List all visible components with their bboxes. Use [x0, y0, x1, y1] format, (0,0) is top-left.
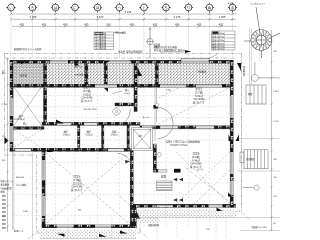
- entry wall x135: [134, 63, 137, 112]
- toilet wall: [115, 103, 134, 106]
- svg-text:物干場: 物干場: [20, 74, 28, 78]
- small wall x128: [127, 125, 129, 149]
- top-right room dashed diagonals: [159, 88, 230, 124]
- meter symbol: [146, 27, 154, 58]
- bottom margin: [47, 218, 226, 238]
- storage east wall x44: [44, 63, 47, 123]
- room labels: [81, 86, 93, 104]
- stair box upper right: [246, 85, 266, 104]
- svg-text:CH=2396: CH=2396: [81, 96, 93, 100]
- WIC dashed diagonals: [14, 130, 42, 148]
- svg-text:0.82㎡: 0.82㎡: [85, 133, 93, 137]
- small notes: [14, 45, 186, 54]
- svg-text:455: 455: [63, 22, 68, 26]
- entry hall door arc: [154, 87, 156, 141]
- tree symbol: [244, 7, 280, 58]
- hatched band top-left (diagonal): [14, 64, 45, 85]
- svg-text:6.62㎡: 6.62㎡: [195, 94, 203, 98]
- svg-text:り: り: [187, 5, 191, 10]
- svg-text:1 820: 1 820: [166, 90, 172, 92]
- toilet door arc: [117, 109, 130, 126]
- svg-text:1 365: 1 365: [2, 104, 8, 106]
- svg-text:6.62㎡: 6.62㎡: [17, 117, 25, 121]
- left lower exterior wall: [42, 148, 45, 228]
- svg-text:12.15㎡: 12.15㎡: [72, 181, 81, 185]
- right dim line: [270, 30, 272, 231]
- corridor north wall: [42, 122, 140, 125]
- svg-text:CH=2396: CH=2396: [71, 185, 83, 189]
- svg-text:洋室②: 洋室②: [83, 86, 91, 90]
- wall x156 upper: [155, 63, 158, 85]
- genkan west wall: [153, 144, 156, 172]
- svg-text:1 365: 1 365: [273, 91, 279, 93]
- svg-text:と: と: [142, 5, 146, 10]
- left lines lower: [31, 152, 33, 239]
- svg-text:(7.3帖): (7.3帖): [73, 178, 81, 182]
- spec table right: [212, 31, 236, 50]
- svg-text:1 365: 1 365: [219, 15, 226, 19]
- svg-text:洋室①: 洋室①: [195, 87, 203, 91]
- slide arrows near entrance: [173, 178, 183, 181]
- svg-text:(6.0帖): (6.0帖): [192, 155, 200, 159]
- spec table center: [94, 32, 114, 50]
- svg-text:910: 910: [106, 22, 111, 26]
- storage room X (solid): [14, 87, 42, 126]
- svg-text:1.66㎡: 1.66㎡: [110, 133, 118, 137]
- small wall x78: [78, 125, 80, 149]
- svg-text:UB: UB: [138, 136, 142, 138]
- svg-text:455: 455: [42, 22, 47, 26]
- living room east wall: [130, 151, 133, 226]
- svg-text:床:ﾌﾛｰﾘﾝｸﾞ: 床:ﾌﾛｰﾘﾝｸﾞ: [71, 188, 83, 192]
- brace arrows: [21, 61, 27, 65]
- svg-text:455: 455: [197, 22, 202, 26]
- svg-text:2 130: 2 130: [273, 121, 279, 123]
- svg-text:455: 455: [219, 22, 224, 26]
- svg-text:CH=2396: CH=2396: [190, 162, 202, 166]
- band bottom wall: [10, 84, 231, 87]
- svg-text:455: 455: [153, 22, 158, 26]
- svg-text:1 365: 1 365: [30, 15, 37, 19]
- sliding door hatch segments: [15, 149, 31, 152]
- svg-text:455: 455: [175, 22, 180, 26]
- svg-text:い: い: [9, 6, 13, 10]
- small wall x103: [102, 125, 104, 149]
- svg-text:洋室A: 洋室A: [74, 175, 81, 179]
- band wall x105: [104, 63, 107, 85]
- genkan steps: [157, 181, 173, 191]
- svg-text:玄関: 玄関: [161, 175, 167, 179]
- svg-text:駐輪場2台分スペース確保: 駐輪場2台分スペース確保: [14, 47, 42, 51]
- left margin dim line: [6, 58, 8, 232]
- svg-text:3 640: 3 640: [97, 15, 104, 19]
- svg-text:ほ: ほ: [96, 5, 100, 10]
- svg-text:ろ: ろ: [31, 5, 35, 10]
- svg-text:へ: へ: [118, 6, 122, 10]
- svg-text:455: 455: [84, 22, 89, 26]
- svg-text:洋室B: 洋室B: [193, 152, 200, 156]
- svg-text:に: に: [73, 6, 77, 10]
- band divider wall x85: [85, 63, 88, 85]
- living room door arc: [118, 154, 133, 169]
- bottom-right room dashed diagonals: [176, 152, 230, 204]
- toilet fixture: [112, 107, 121, 116]
- step-up wall: [133, 204, 136, 228]
- corridor south wall / step: [10, 148, 134, 151]
- dimension line row 1: [12, 14, 236, 26]
- svg-text:床:ﾌﾛｰﾘﾝｸﾞ: 床:ﾌﾛｰﾘﾝｸﾞ: [193, 101, 205, 105]
- svg-text:7365: 7365: [23, 211, 29, 213]
- svg-text:MIG 300: MIG 300: [16, 177, 25, 179]
- left closet divider wall: [13, 127, 44, 130]
- ground stipple strip bottom-right: [136, 209, 236, 218]
- svg-text:4 138: 4 138: [125, 11, 132, 14]
- svg-text:ち: ち: [164, 5, 168, 10]
- svg-text:(3.7帖): (3.7帖): [195, 90, 203, 94]
- svg-text:2 275: 2 275: [174, 15, 181, 19]
- svg-text:ぬ: ぬ: [208, 6, 212, 10]
- right circle lower: [243, 185, 259, 190]
- right exterior wall: [230, 60, 233, 207]
- UB unit bath: [132, 128, 153, 151]
- corner dash diagonals: [28, 196, 250, 239]
- svg-text:雨水枡 設置位置図参照: 雨水枡 設置位置図参照: [118, 50, 143, 54]
- svg-text:4 550: 4 550: [228, 2, 235, 5]
- svg-text:455: 455: [20, 22, 25, 26]
- svg-text:910 455 1820: 910 455 1820: [83, 109, 97, 111]
- stair box lower right: [240, 150, 268, 169]
- module grid dashed: [13, 63, 231, 227]
- roof overhang dashed outline: [5, 54, 242, 234]
- bottom-right exterior wall: [133, 204, 236, 207]
- top-right room south wall: [140, 126, 231, 129]
- box above wall: [181, 58, 209, 62]
- grid axis circles: [6, 3, 237, 13]
- bottom-left exterior wall: [42, 225, 136, 228]
- hatched band top-right (stipple): [47, 64, 231, 85]
- svg-text:下屋部分: 下屋部分: [197, 70, 207, 74]
- svg-text:CH=2396: CH=2396: [193, 97, 205, 101]
- svg-text:455: 455: [130, 22, 135, 26]
- windows: [50, 60, 68, 63]
- svg-text:6.62㎡: 6.62㎡: [83, 92, 91, 96]
- svg-text:1.66㎡: 1.66㎡: [62, 133, 70, 137]
- svg-text:は: は: [54, 5, 58, 10]
- ground stipple strip bottom-left: [40, 230, 136, 239]
- living room large X dashed: [46, 153, 130, 225]
- svg-text:床:ﾌﾛｰﾘﾝｸﾞ: 床:ﾌﾛｰﾘﾝｸﾞ: [81, 99, 93, 103]
- svg-text:床:ﾌﾛｰﾘﾝｸﾞ: 床:ﾌﾛｰﾘﾝｸﾞ: [190, 165, 202, 169]
- genkan south wall: [153, 169, 158, 172]
- left exterior wall upper: [10, 60, 13, 151]
- svg-text:(3.7帖): (3.7帖): [83, 89, 91, 93]
- svg-text:YKKAP 2 727mm: YKKAP 2 727mm: [170, 144, 188, 147]
- svg-text:9.94㎡: 9.94㎡: [192, 158, 200, 162]
- top exterior wall: [10, 60, 233, 63]
- right circle upper: [252, 62, 281, 81]
- svg-text:軒先高さ斜線制限内に収める: 軒先高さ斜線制限内に収める: [154, 48, 186, 52]
- property line lower-left: [12, 151, 14, 230]
- svg-text:る: る: [231, 5, 235, 10]
